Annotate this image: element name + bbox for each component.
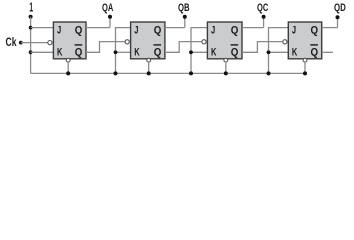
svg-text:Q: Q xyxy=(231,46,239,58)
flip-flop U1 body xyxy=(53,22,86,59)
svg-text:Ck: Ck xyxy=(6,35,17,49)
wire J2 input xyxy=(116,28,131,74)
wire Q2 output to QB stem xyxy=(165,27,185,29)
rail junction dot under U2 xyxy=(147,71,151,75)
svg-text:Q: Q xyxy=(154,46,162,58)
wire QC stem xyxy=(263,17,265,28)
junction dot K3 feed xyxy=(189,50,193,54)
svg-text:QA: QA xyxy=(102,2,113,14)
wire Q-bar1 to U2 clock bubble xyxy=(86,42,125,53)
node QC dot xyxy=(262,15,266,19)
svg-text:J: J xyxy=(134,25,138,37)
flip-flop U3 body xyxy=(207,22,242,59)
svg-text:Q: Q xyxy=(311,46,319,58)
rail junction dot riser 2 xyxy=(114,71,118,75)
wire K4 input xyxy=(269,51,289,53)
clock bubble (U1) xyxy=(48,41,52,45)
bottom rail wire (logic 1 distribution) xyxy=(31,72,305,74)
rail junction dot riser 4 xyxy=(267,71,271,75)
junction dot K4 feed xyxy=(267,50,271,54)
Q-bar overbar (U2) xyxy=(154,44,162,45)
wire K3 input xyxy=(191,51,207,53)
wire: U2 clear stem to rail xyxy=(148,62,150,73)
svg-text:Q: Q xyxy=(311,25,319,37)
clock bubble (U3) xyxy=(202,40,206,44)
junction dot J1 feed xyxy=(29,26,33,30)
junction dot K2 feed xyxy=(114,50,118,54)
wire: logic-1 riser down to bottom rail xyxy=(30,17,32,74)
node QA dot xyxy=(108,15,112,19)
wire K1 input xyxy=(31,51,54,53)
svg-text:J: J xyxy=(211,25,215,37)
wire: U1 clear stem to rail xyxy=(67,62,69,73)
svg-text:K: K xyxy=(134,47,139,59)
svg-text:QB: QB xyxy=(178,2,190,14)
node QB dot xyxy=(183,15,187,19)
svg-text:J: J xyxy=(292,25,296,37)
svg-text:Q: Q xyxy=(75,25,83,37)
node QD dot xyxy=(336,15,340,19)
wire QB stem xyxy=(184,17,186,28)
wire J4 input xyxy=(269,28,289,74)
wire Q4 output to QD stem xyxy=(322,27,338,29)
svg-text:QC: QC xyxy=(257,2,268,14)
svg-text:Q: Q xyxy=(154,25,162,37)
wire QA stem xyxy=(109,17,111,28)
svg-text:1: 1 xyxy=(29,1,33,15)
wire Q-bar4 stub xyxy=(322,51,333,53)
svg-text:Q: Q xyxy=(231,25,239,37)
rail junction dot under U1 xyxy=(66,71,70,75)
svg-text:K: K xyxy=(57,47,62,59)
wire Q-bar3 to U4 clock bubble xyxy=(242,42,282,53)
svg-text:J: J xyxy=(57,25,61,37)
svg-text:QD: QD xyxy=(334,2,346,14)
svg-text:K: K xyxy=(211,47,216,59)
clock bubble (U4) xyxy=(283,40,287,44)
clear bubble under U1 xyxy=(66,58,70,62)
clear bubble under U3 xyxy=(224,58,228,62)
wire Q-bar2 to U3 clock bubble xyxy=(165,42,202,53)
wire: U4 clear stem to rail xyxy=(304,62,306,73)
wire J1 input xyxy=(31,27,54,29)
svg-text:Q: Q xyxy=(75,46,83,58)
wire K2 input xyxy=(116,51,131,53)
node 1 terminal dot xyxy=(29,15,33,19)
wire Q3 output to QC stem xyxy=(242,27,264,29)
rail junction dot under U4 xyxy=(303,71,307,75)
Q-bar overbar (U3) xyxy=(231,44,239,45)
wire QD stem xyxy=(337,17,339,27)
rail junction dot riser 3 xyxy=(189,71,193,75)
wire J3 input xyxy=(191,28,207,74)
junction dot K1 feed xyxy=(29,50,33,54)
Q-bar overbar (U4) xyxy=(310,44,318,45)
wire: U3 clear stem to rail xyxy=(225,62,227,73)
Q-bar overbar (U1) xyxy=(75,44,83,45)
wire: Ck to U1 clock bubble xyxy=(21,42,48,44)
rail junction dot under U3 xyxy=(224,71,228,75)
svg-text:K: K xyxy=(292,47,297,59)
Ck terminal dot xyxy=(19,41,23,45)
clear bubble under U4 xyxy=(303,58,307,62)
flip-flop U2 body xyxy=(131,22,165,59)
wire Q1 output to QA stem xyxy=(86,27,110,29)
clear bubble under U2 xyxy=(147,58,151,62)
flip-flop U4 body xyxy=(288,22,321,59)
clock bubble (U2) xyxy=(125,40,129,44)
